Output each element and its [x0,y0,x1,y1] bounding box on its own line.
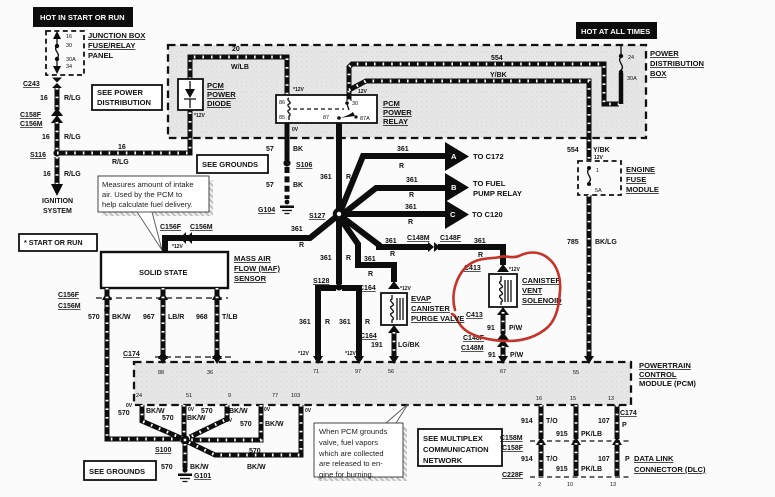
svg-text:PCM: PCM [383,99,400,108]
svg-text:554: 554 [491,55,503,62]
wire 361 R S128 to PCM pin 71 [298,288,336,375]
splice S127 [309,208,345,220]
JUNCTION BOX FUSE/RELAY PANEL label [88,31,145,60]
svg-text:SEE GROUNDS: SEE GROUNDS [89,467,145,476]
svg-text:TO C120: TO C120 [472,210,503,219]
svg-text:BK/LG: BK/LG [595,239,617,246]
svg-text:13: 13 [610,482,616,488]
svg-text:361: 361 [397,146,409,153]
wire 361 R S127 to C148M [342,217,430,258]
svg-text:LB/R: LB/R [168,314,184,321]
svg-text:POWER: POWER [650,49,679,58]
svg-text:12V: 12V [358,89,368,95]
svg-text:NETWORK: NETWORK [423,456,463,465]
HOT IN START OR RUN banner [33,7,133,27]
svg-text:361: 361 [385,238,397,245]
ENGINE FUSE MODULE label [626,165,659,194]
CANISTER VENT SOLENOID label [522,276,562,305]
svg-text:*12V: *12V [194,113,206,119]
svg-text:16: 16 [42,134,50,141]
wire 914 T/O C158F to C228F [521,443,558,476]
svg-text:T/O: T/O [546,456,558,463]
svg-text:which are collected: which are collected [318,449,384,458]
svg-text:C148M: C148M [461,345,484,352]
svg-text:FUSE: FUSE [626,175,646,184]
wire 191 LG/BK C164 to PCM pin 56 [371,332,420,375]
wire 16 R/LG C158F to S116 [42,122,81,150]
splice S128 [313,278,343,291]
wire 785 BK/LG engine fuse module to PCM pin 55 [567,195,617,376]
PCM bottom pins 16 15 13 [536,396,614,402]
svg-text:CANISTER: CANISTER [411,304,450,313]
powertrain control module shaded enclosure (PCM) [134,362,631,405]
wire 16 R/LG C243 to C158F [40,88,81,110]
svg-text:P/W: P/W [509,325,523,332]
wire 361 R S127 to arrow B [343,177,445,214]
svg-text:HOT AT ALL TIMES: HOT AT ALL TIMES [581,27,650,36]
svg-text:BK: BK [293,146,303,153]
svg-text:570: 570 [161,464,173,471]
svg-text:R: R [346,255,351,262]
svg-text:VENT: VENT [522,286,543,295]
svg-text:R: R [478,252,483,259]
wire 570 BK/W S100 to G101 [161,444,209,471]
svg-text:0V: 0V [226,418,233,424]
ground G104 [258,200,294,214]
POWERTRAIN CONTROL MODULE label [639,361,696,388]
fuse 24 30A in power distribution box [619,45,637,104]
svg-text:88: 88 [158,370,164,376]
svg-text:C243: C243 [23,81,40,88]
connector C413 (top) [464,264,521,273]
svg-text:16: 16 [43,171,51,178]
svg-text:CONNECTOR (DLC): CONNECTOR (DLC) [634,465,706,474]
connector C243 [23,78,62,89]
EVAP CANISTER PURGE VALVE label [411,294,464,323]
svg-text:MASS AIR: MASS AIR [234,254,271,263]
wire 570 BK/W PCM pin 51 to S100 [162,393,206,436]
wire 570 BK/W PCM pin 77 to S100 [190,393,284,440]
svg-text:CANISTER: CANISTER [522,276,561,285]
fuse F16 in junction box [53,31,76,74]
svg-text:C156M: C156M [20,121,43,128]
svg-text:570: 570 [249,448,261,455]
svg-text:P: P [622,422,627,429]
svg-text:BK/W: BK/W [112,314,131,321]
svg-text:S128: S128 [313,278,329,285]
START OR RUN note box [19,234,97,251]
svg-text:R/LG: R/LG [64,95,81,102]
wire 914 T/O PCM pin 16 to C158M [521,405,558,439]
svg-text:HOT IN START OR RUN: HOT IN START OR RUN [40,13,125,22]
ground G101 [178,467,211,481]
svg-text:SOLENOID: SOLENOID [522,296,562,305]
svg-text:20: 20 [232,46,240,53]
svg-text:24: 24 [136,393,142,399]
svg-text:24: 24 [628,55,634,61]
svg-text:361: 361 [299,319,311,326]
svg-text:TO C172: TO C172 [473,152,504,161]
SEE POWER DISTRIBUTION box [92,85,162,110]
svg-text:C174: C174 [620,410,637,417]
connector C164 (top) [359,281,412,292]
svg-text:914: 914 [521,456,533,463]
wire 16 R/LG S116 to ignition system [43,157,81,196]
svg-text:15: 15 [570,396,576,402]
svg-text:914: 914 [521,418,533,425]
svg-text:LG/BK: LG/BK [398,342,420,349]
svg-text:C158F: C158F [502,445,524,452]
svg-text:30: 30 [66,43,72,49]
svg-text:BK/W: BK/W [229,408,248,415]
connector C174 (MAF side) [123,350,232,359]
svg-text:G104: G104 [258,207,275,214]
svg-text:R: R [409,192,414,199]
wire leader for callout (fuel vapors note) [386,404,408,423]
svg-text:are released to en-: are released to en- [319,459,383,468]
svg-text:BK/W: BK/W [187,415,206,422]
svg-text:*12V: *12V [345,351,357,357]
svg-text:34: 34 [66,64,72,70]
svg-text:CONTROL: CONTROL [639,370,677,379]
svg-text:BK: BK [293,182,303,189]
svg-text:gine for burning.: gine for burning. [319,470,374,479]
connector C148F C148M (91 circuit) [461,332,509,352]
fuel vapors callout note [314,423,407,481]
svg-text:107: 107 [598,456,610,463]
svg-text:DATA LINK: DATA LINK [634,454,674,463]
connector C413 (bottom) [466,307,509,319]
svg-text:30A: 30A [627,76,637,82]
svg-text:R/LG: R/LG [64,134,81,141]
svg-text:57: 57 [266,182,274,189]
svg-text:570: 570 [240,421,252,428]
svg-text:T/LB: T/LB [222,314,238,321]
splice S116 [30,149,61,159]
MASS AIR FLOW (MAF) SENSOR label [234,254,280,283]
POWER DISTRIBUTION BOX label [650,49,704,78]
svg-text:16: 16 [40,95,48,102]
svg-text:Y/BK: Y/BK [490,72,507,79]
svg-text:DIODE: DIODE [207,99,231,108]
svg-text:T/O: T/O [546,418,558,425]
canister vent solenoid L2 [489,274,517,307]
svg-text:W/LB: W/LB [231,64,249,71]
svg-text:361: 361 [339,319,351,326]
svg-text:P/W: P/W [510,352,524,359]
svg-text:67: 67 [500,369,506,375]
svg-text:IGNITION: IGNITION [42,198,73,205]
svg-text:RELAY: RELAY [383,117,408,126]
wire 361 R relay pin 87 to S127 [320,123,351,211]
svg-text:56: 56 [388,369,394,375]
svg-text:ENGINE: ENGINE [626,165,655,174]
svg-text:SOLID STATE: SOLID STATE [139,268,187,277]
svg-text:1: 1 [596,168,599,174]
svg-text:77: 77 [272,393,278,399]
svg-text:COMMUNICATION: COMMUNICATION [423,445,489,454]
mass air flow sensor U1 [101,252,228,288]
svg-text:570: 570 [201,408,213,415]
HOT AT ALL TIMES banner [576,22,657,39]
svg-text:R: R [299,242,304,249]
svg-text:S127: S127 [309,213,325,220]
svg-text:91: 91 [487,325,495,332]
svg-text:C158M: C158M [500,435,523,442]
wire 361 R C148F to canister vent solenoid [438,238,503,265]
svg-text:SEE GROUNDS: SEE GROUNDS [202,160,258,169]
svg-text:30A: 30A [66,57,76,63]
svg-text:71: 71 [313,369,319,375]
svg-text:PK/LB: PK/LB [581,431,602,438]
wire 570 BK/W MAF to S100 [88,288,181,439]
svg-text:C: C [450,210,456,219]
svg-text:air. Used by the PCM to: air. Used by the PCM to [102,190,182,199]
splice S100 [155,435,190,454]
connector C228F [502,472,630,488]
svg-text:POWERTRAIN: POWERTRAIN [639,361,691,370]
svg-text:SEE MULTIPLEX: SEE MULTIPLEX [423,434,483,443]
svg-text:16: 16 [118,144,126,151]
svg-text:0V: 0V [292,127,299,133]
arrow A TO C172 [445,142,504,171]
SEE GROUNDS box (upper) [197,155,268,173]
svg-text:87: 87 [323,115,329,121]
svg-text:TO FUEL: TO FUEL [473,179,506,188]
svg-text:S116: S116 [30,152,46,159]
svg-text:PK/LB: PK/LB [581,466,602,473]
junction box fuse/relay panel (dashed) [46,31,84,75]
svg-text:* START OR RUN: * START OR RUN [24,238,83,247]
svg-text:0V: 0V [305,408,312,414]
svg-text:107: 107 [598,418,610,425]
PCM POWER DIODE label [207,81,236,108]
svg-text:A: A [451,152,457,161]
wire 968 T/LB MAF to PCM pin 36 [196,288,238,376]
connector C158F C156M [20,108,63,128]
svg-text:*12V: *12V [400,286,412,292]
svg-text:B: B [451,183,457,192]
wire 361 R S128 to PCM pin 97 [339,288,370,375]
svg-text:S100: S100 [155,447,171,454]
connector C156F C156M (MAF outputs) [58,291,228,314]
connector C148M C148F [407,235,462,252]
svg-text:S106: S106 [296,162,312,169]
svg-text:85: 85 [279,115,285,121]
svg-text:G101: G101 [194,473,211,480]
wire 554 Y/BK fuse to relay pin 30 [349,55,619,104]
connector C164 (bottom) [360,325,400,340]
wire 915 PK/LB PCM pin 15 to C158M [556,405,602,439]
svg-text:*12V: *12V [172,244,184,250]
engine fuse module (dashed) [578,161,621,195]
svg-text:5A: 5A [595,188,602,194]
svg-text:FUSE/RELAY: FUSE/RELAY [88,41,135,50]
svg-text:DISTRIBUTION: DISTRIBUTION [650,59,704,68]
arrow C TO C120 [445,200,503,229]
svg-text:57: 57 [266,146,274,153]
svg-text:C156M: C156M [58,303,81,310]
svg-text:103: 103 [291,393,300,399]
svg-text:86: 86 [279,100,285,106]
wire 554 Y/BK branch to engine fuse module [349,81,610,161]
svg-text:R/LG: R/LG [64,171,81,178]
svg-text:10: 10 [567,482,573,488]
svg-text:PANEL: PANEL [88,51,114,60]
wire 361 R S127 to MAF sensor [165,217,336,252]
svg-text:C148F: C148F [440,235,462,242]
svg-text:30: 30 [352,101,358,107]
svg-text:0V: 0V [126,403,133,409]
svg-text:C156M: C156M [190,224,213,231]
svg-text:570: 570 [118,410,130,417]
svg-text:570: 570 [162,415,174,422]
svg-text:C156F: C156F [58,292,80,299]
svg-text:C174: C174 [123,351,140,358]
svg-text:51: 51 [186,393,192,399]
wire 570 BK/W PCM pin 24 to S100 [118,393,181,438]
svg-text:785: 785 [567,239,579,246]
svg-text:570: 570 [88,314,100,321]
wire 967 LB/R MAF to PCM pin 88 [143,288,184,376]
pcm power diode D1 [178,79,206,119]
svg-text:EVAP: EVAP [411,294,431,303]
svg-text:R: R [399,163,404,170]
arrow B TO FUEL PUMP RELAY [445,173,522,202]
svg-text:BK/W: BK/W [146,408,165,415]
wire 57 BK relay pin 85 to S106 [266,123,303,160]
svg-text:C148M: C148M [407,235,430,242]
svg-text:POWER: POWER [207,90,236,99]
svg-text:0V: 0V [188,407,195,413]
power distribution box / relay shaded enclosure [168,45,646,138]
svg-text:MODULE: MODULE [626,185,659,194]
wire 16 R/LG S116 to PCM power diode [57,110,190,166]
svg-text:91: 91 [488,352,496,359]
svg-text:PUMP RELAY: PUMP RELAY [473,189,522,198]
svg-text:13: 13 [608,396,614,402]
svg-text:R: R [390,251,395,258]
svg-text:MODULE (PCM): MODULE (PCM) [639,379,696,388]
svg-text:16: 16 [66,34,72,40]
svg-text:361: 361 [320,255,332,262]
svg-text:SEE POWER: SEE POWER [97,88,144,97]
svg-text:9: 9 [228,393,231,399]
wire 361 R S127 to arrow C [344,204,445,226]
svg-text:POWER: POWER [383,108,412,117]
connector C174 (DLC side) [620,410,637,429]
svg-text:P: P [625,456,630,463]
svg-text:554: 554 [567,147,579,154]
svg-text:SYSTEM: SYSTEM [43,208,72,215]
intake air callout note [98,176,213,250]
evap canister purge valve L1 [381,293,407,325]
svg-text:C413: C413 [466,312,483,319]
svg-text:R: R [368,271,373,278]
wire 107 P C158F to C228F [598,443,630,476]
svg-text:C228F: C228F [502,472,524,479]
svg-text:R: R [325,319,330,326]
svg-text:*12V: *12V [509,267,521,273]
svg-text:Measures amount of intake: Measures amount of intake [102,180,194,189]
svg-text:BK/W: BK/W [265,421,284,428]
svg-text:help calculate fuel delivery.: help calculate fuel delivery. [102,200,193,209]
svg-text:361: 361 [320,174,332,181]
wire 915 PK/LB C158F to C228F [556,443,602,476]
svg-text:C158F: C158F [20,112,42,119]
svg-text:*12V: *12V [293,87,305,93]
wire 361 R S127 to S128 [320,218,351,284]
connector C156F C156M (MAF feed) [160,224,213,244]
svg-text:BK/W: BK/W [247,464,266,471]
svg-text:87A: 87A [360,116,370,122]
svg-text:DISTRIBUTION: DISTRIBUTION [97,98,151,107]
SEE MULTIPLEX COMMUNICATION NETWORK box [418,429,502,466]
wire 91 P/W C413 to C148F [487,312,523,334]
svg-text:BK/W: BK/W [190,464,209,471]
DATA LINK CONNECTOR label [634,454,706,474]
svg-text:915: 915 [556,431,568,438]
wire 570 BK/W PCM pin 103 to S100 [188,393,312,471]
wire 570 BK/W PCM pin 9 to S100 [190,393,248,437]
svg-text:55: 55 [573,370,579,376]
svg-text:PURGE VALVE: PURGE VALVE [411,314,464,323]
svg-text:PCM: PCM [207,81,224,90]
svg-text:JUNCTION BOX: JUNCTION BOX [88,31,145,40]
svg-text:C164: C164 [360,333,377,340]
wire 57 BK S106 to G104 [266,167,303,199]
svg-text:Y/BK: Y/BK [593,147,610,154]
pcm power relay K1 [276,95,377,133]
connector C158M C158F [500,435,630,452]
SEE GROUNDS box (lower) [84,461,156,480]
svg-text:967: 967 [143,314,155,321]
wire 361 R S127 to arrow A [341,146,445,210]
svg-text:*12V: *12V [298,351,310,357]
svg-text:191: 191 [371,342,383,349]
svg-text:361: 361 [291,226,303,233]
svg-text:R/LG: R/LG [112,159,129,166]
svg-text:915: 915 [556,466,568,473]
svg-text:FLOW (MAF): FLOW (MAF) [234,264,280,273]
svg-text:968: 968 [196,314,208,321]
svg-text:R: R [365,319,370,326]
svg-text:R: R [408,219,413,226]
svg-text:BOX: BOX [650,69,666,78]
svg-text:When PCM grounds: When PCM grounds [319,427,388,436]
wire 107 P PCM pin 13 to C158M [598,405,617,439]
svg-text:36: 36 [207,370,213,376]
svg-text:SENSOR: SENSOR [234,274,267,283]
red highlight circle [452,253,560,342]
IGNITION SYSTEM label [42,198,73,215]
svg-text:valve, fuel vapors: valve, fuel vapors [319,438,378,447]
svg-text:361: 361 [474,238,486,245]
svg-text:C156F: C156F [160,224,182,231]
svg-text:2: 2 [538,482,541,488]
wire 361 R S127 to C164 [340,218,394,282]
wire 20 W/LB diode to relay pin 86 [190,46,305,95]
svg-text:361: 361 [405,204,417,211]
svg-text:361: 361 [406,177,418,184]
svg-text:0V: 0V [264,407,271,413]
svg-text:361: 361 [364,256,376,263]
svg-text:97: 97 [355,369,361,375]
svg-text:16: 16 [536,396,542,402]
PCM POWER RELAY label [383,99,412,126]
wire 91 P/W C148M to PCM pin 67 [488,346,524,375]
splice S106 [283,159,312,169]
